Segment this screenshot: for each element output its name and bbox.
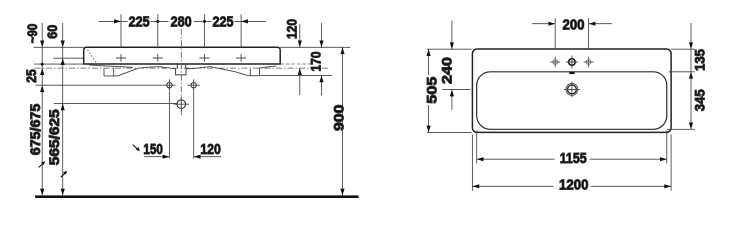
bowl underside center-left <box>138 67 176 69</box>
dim 900 stem <box>342 47 344 195</box>
vertical centerline (dash-dot) <box>180 29 182 116</box>
dim 120 <box>194 156 221 158</box>
hidden inner bowl diagonal (dotted) <box>88 50 98 65</box>
tap hole cross 1 <box>116 54 126 62</box>
dim 1200 line <box>472 185 671 187</box>
center drain pocket <box>176 64 186 75</box>
tap hole cross 4 <box>236 54 246 62</box>
svg-text:345: 345 <box>693 89 708 111</box>
siphon drain circle <box>177 100 186 109</box>
svg-text:675/675: 675/675 <box>28 103 43 155</box>
svg-text:25: 25 <box>24 69 39 83</box>
dim chain dots <box>156 20 159 23</box>
extension line bottom edge left <box>34 63 84 65</box>
siphon axis reference line <box>54 102 177 104</box>
foot bottom reference line <box>261 75 333 77</box>
bowl underside profile left <box>89 65 133 68</box>
svg-text:120: 120 <box>285 19 300 39</box>
svg-text:505: 505 <box>425 76 440 104</box>
drain (plan) <box>566 84 578 96</box>
extension line tap axis left <box>53 57 83 59</box>
outer rim outline <box>472 49 671 132</box>
svg-text:120: 120 <box>200 141 221 158</box>
tap hole cross 3 <box>200 54 210 62</box>
dim 240 stem <box>451 21 453 111</box>
svg-text:200: 200 <box>563 16 585 33</box>
tap hole right (plan) <box>586 60 591 65</box>
fixing hole extension lines down <box>169 92 193 159</box>
hidden bottom edge extension right (dashed) <box>280 63 311 65</box>
right dim stem A (120) <box>299 24 301 95</box>
dim 505 <box>427 49 472 132</box>
dim 1155 line <box>477 158 667 160</box>
dim leader left <box>99 20 121 22</box>
svg-text:150: 150 <box>143 141 163 158</box>
dim 1155 extension lines <box>477 131 667 164</box>
extension line rim top right <box>280 46 350 48</box>
fixing hole left <box>167 83 172 88</box>
top dim extension lines <box>121 14 241 47</box>
right extension lines <box>667 49 695 129</box>
stem2 arrows <box>61 41 65 48</box>
dim leader right <box>241 20 266 22</box>
svg-text:225: 225 <box>129 14 150 31</box>
svg-text:~90: ~90 <box>25 24 40 44</box>
svg-text:60: 60 <box>45 25 60 39</box>
svg-text:1155: 1155 <box>560 150 587 167</box>
left foot <box>104 67 138 76</box>
basin outline <box>84 47 281 64</box>
left dim stem 1 <box>41 23 43 196</box>
adjustable arrow for 675/675 <box>39 163 44 167</box>
svg-text:225: 225 <box>213 14 234 31</box>
right chain stem <box>690 23 692 129</box>
stem1 arrows <box>40 41 44 48</box>
tap hole middle (plan) <box>569 59 576 66</box>
right dim stem B (170) <box>321 23 323 95</box>
fixing hole right <box>191 83 196 88</box>
dim 150 <box>144 156 169 158</box>
horizontal axis line (dash-dot) <box>35 67 330 69</box>
svg-text:135: 135 <box>693 49 708 71</box>
tap hole cross 2 <box>153 54 163 62</box>
svg-text:565/625: 565/625 <box>47 109 62 166</box>
tap hole left (plan) <box>553 60 558 65</box>
dim 1200 extension lines <box>472 135 671 191</box>
dim 200 leaders <box>532 23 612 25</box>
fixing hole axis reference line <box>36 84 163 86</box>
adjustable arrow for 150 <box>133 145 138 149</box>
adjustable arrow for 565/625 <box>61 173 66 177</box>
svg-text:280: 280 <box>171 14 192 31</box>
extension line rim top left <box>34 46 84 48</box>
ground line <box>35 195 358 198</box>
right foot <box>248 68 260 76</box>
svg-text:900: 900 <box>332 105 347 132</box>
bowl underside center-right <box>186 67 248 76</box>
drain axis reference line <box>442 89 471 91</box>
bowl underside right <box>260 66 277 68</box>
left dim stem 2 <box>62 23 64 195</box>
dim 200 extension lines <box>555 18 588 49</box>
inner bowl outline <box>477 72 667 130</box>
svg-text:240: 240 <box>439 57 454 84</box>
overflow mark <box>569 72 574 74</box>
dim 225 line segments <box>121 20 241 22</box>
svg-text:170: 170 <box>308 52 323 72</box>
svg-text:1200: 1200 <box>559 177 589 194</box>
